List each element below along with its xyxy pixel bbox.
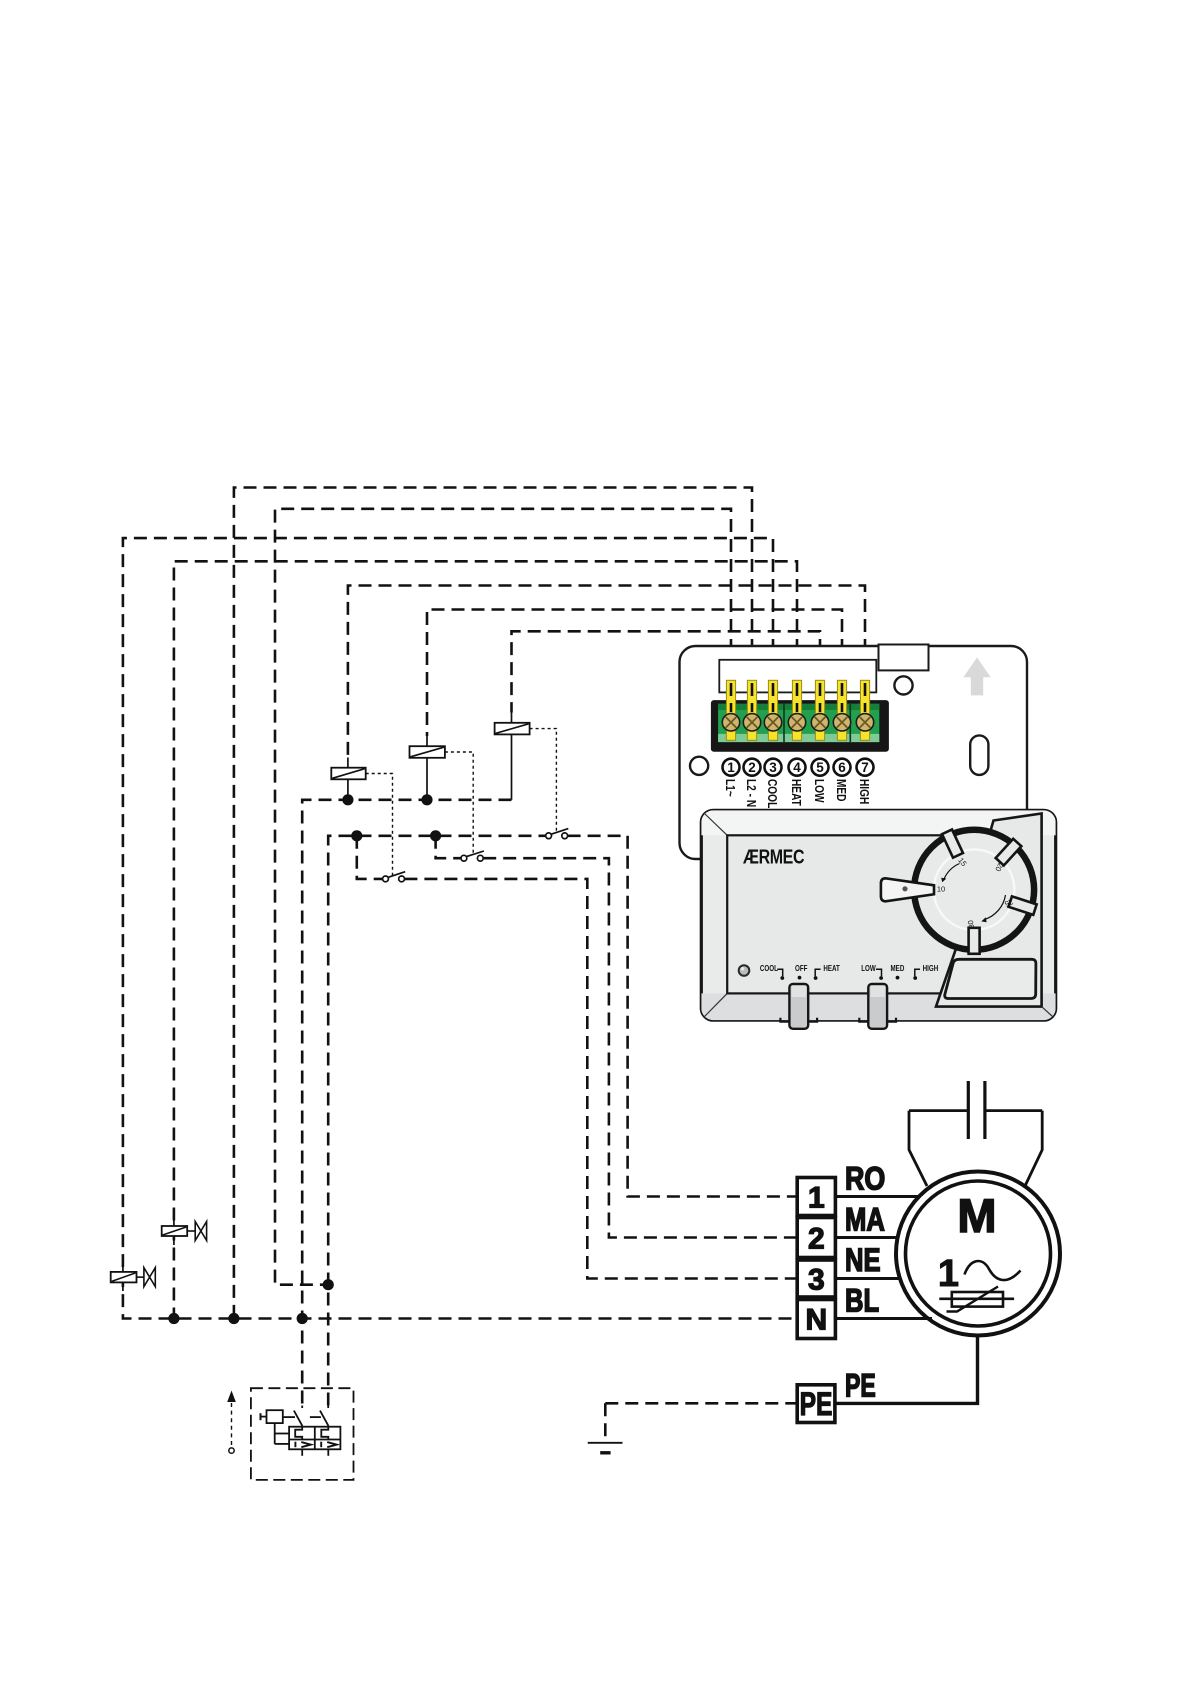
- svg-text:PE: PE: [845, 1368, 876, 1404]
- svg-text:L2 - N: L2 - N: [744, 779, 758, 807]
- svg-text:ÆRMEC: ÆRMEC: [743, 846, 804, 868]
- svg-text:30: 30: [966, 920, 976, 930]
- svg-text:MED: MED: [890, 964, 904, 973]
- svg-text:1: 1: [727, 760, 735, 775]
- svg-text:HEAT: HEAT: [789, 779, 803, 806]
- svg-text:LOW: LOW: [861, 964, 876, 973]
- svg-text:1: 1: [938, 1253, 959, 1295]
- svg-text:10: 10: [937, 885, 945, 894]
- svg-text:2: 2: [748, 760, 756, 775]
- svg-text:3: 3: [769, 760, 777, 775]
- svg-text:NE: NE: [845, 1243, 881, 1278]
- svg-text:BL: BL: [845, 1284, 879, 1319]
- svg-text:MA: MA: [845, 1203, 885, 1238]
- svg-text:COOL: COOL: [765, 779, 779, 808]
- svg-text:HIGH: HIGH: [857, 779, 871, 804]
- svg-text:N: N: [805, 1303, 827, 1336]
- svg-text:L1~: L1~: [723, 779, 737, 797]
- svg-text:HIGH: HIGH: [923, 964, 939, 973]
- svg-text:6: 6: [838, 760, 846, 775]
- svg-text:2: 2: [808, 1222, 825, 1255]
- svg-text:5: 5: [816, 760, 824, 775]
- svg-text:RO: RO: [845, 1161, 885, 1197]
- svg-text:PE: PE: [800, 1387, 833, 1423]
- svg-text:COOL: COOL: [760, 964, 779, 973]
- svg-text:3: 3: [808, 1263, 825, 1296]
- svg-text:HEAT: HEAT: [823, 964, 840, 973]
- svg-text:M: M: [957, 1189, 996, 1242]
- svg-text:4: 4: [793, 760, 801, 775]
- svg-text:OFF: OFF: [795, 964, 808, 973]
- svg-text:MED: MED: [834, 779, 848, 802]
- svg-text:1: 1: [808, 1181, 825, 1214]
- svg-text:LOW: LOW: [812, 779, 826, 803]
- svg-text:7: 7: [861, 760, 869, 775]
